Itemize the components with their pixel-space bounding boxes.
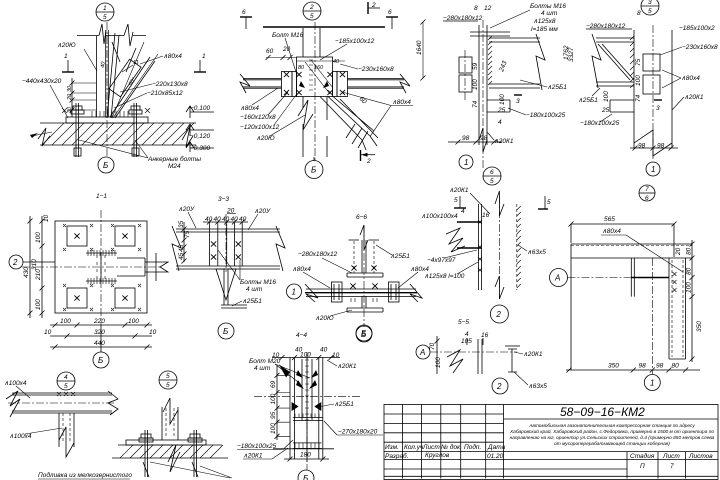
svg-text:100: 100 bbox=[270, 423, 277, 434]
svg-text:∧20У: ∧20У bbox=[178, 206, 195, 213]
svg-text:2: 2 bbox=[495, 310, 501, 319]
svg-text:74: 74 bbox=[472, 100, 479, 108]
right splice detail bbox=[568, 0, 718, 176]
svg-text:4 шт: 4 шт bbox=[254, 365, 271, 372]
inner bolt verticals bbox=[302, 359, 312, 420]
detail circle 1/5 bbox=[96, 3, 114, 21]
svg-text:∧25Б1: ∧25Б1 bbox=[334, 401, 354, 408]
svg-text:∧100х100х4: ∧100х100х4 bbox=[421, 213, 458, 220]
svg-text:−120х100х12: −120х100х12 bbox=[240, 124, 280, 131]
stitching on node plate bbox=[309, 60, 313, 90]
top plate bbox=[470, 32, 510, 36]
svg-text:59: 59 bbox=[472, 62, 479, 70]
plate bolt ticks bbox=[92, 111, 132, 117]
elevation -0,100 bbox=[186, 105, 214, 118]
svg-text:5: 5 bbox=[166, 373, 170, 380]
svg-text:∧80х4: ∧80х4 bbox=[410, 266, 429, 273]
svg-text:4: 4 bbox=[465, 331, 469, 338]
svg-text:∧20К1: ∧20К1 bbox=[243, 453, 263, 460]
gusset bolts crosses bbox=[74, 233, 127, 300]
svg-text:100: 100 bbox=[35, 299, 42, 310]
svg-text:40: 40 bbox=[222, 216, 230, 223]
svg-text:100: 100 bbox=[270, 393, 277, 404]
svg-text:∧80х4: ∧80х4 bbox=[392, 99, 411, 106]
svg-text:Болт М20: Болт М20 bbox=[249, 358, 281, 365]
dim 180 bbox=[284, 452, 329, 462]
svg-text:5: 5 bbox=[648, 8, 652, 15]
svg-text:40: 40 bbox=[205, 216, 213, 223]
svg-text:98: 98 bbox=[480, 135, 488, 142]
svg-text:∧80х4: ∧80х4 bbox=[240, 105, 259, 112]
section marker 2 top bbox=[368, 2, 380, 14]
svg-text:1: 1 bbox=[103, 5, 107, 12]
svg-text:∧25Б1: ∧25Б1 bbox=[578, 97, 598, 104]
svg-text:∧20К1: ∧20К1 bbox=[684, 94, 704, 101]
hatch marks on column left face bbox=[630, 36, 634, 88]
svg-text:75: 75 bbox=[184, 230, 191, 238]
svg-text:3327: 3327 bbox=[568, 47, 575, 62]
svg-text:100: 100 bbox=[128, 318, 139, 325]
svg-text:направлению на юг, ориентир ул: направлению на юг, ориентир ул.Сельских … bbox=[510, 434, 715, 441]
circle B bottom bbox=[93, 325, 109, 368]
outer plate square bbox=[55, 221, 147, 313]
section marker 6 right bbox=[386, 9, 398, 29]
hatch on right line bbox=[517, 206, 521, 288]
svg-text:25: 25 bbox=[601, 107, 610, 114]
svg-text:Лист: Лист bbox=[422, 444, 440, 451]
svg-text:∧20К1: ∧20К1 bbox=[494, 138, 514, 145]
svg-text:Болт М16: Болт М16 bbox=[272, 32, 304, 39]
center column solid w break bbox=[362, 240, 366, 308]
svg-text:1640: 1640 bbox=[416, 40, 423, 55]
dim 98 98 bbox=[448, 135, 502, 145]
svg-text:А: А bbox=[419, 348, 425, 357]
baseplate bbox=[66, 117, 148, 123]
column flanges above node bbox=[303, 28, 320, 57]
diagonal brace 1 near vertical bbox=[107, 33, 119, 118]
svg-text:350: 350 bbox=[696, 321, 703, 332]
left dim verticals bbox=[178, 220, 191, 263]
column bbox=[162, 407, 178, 440]
breaks bbox=[172, 226, 285, 271]
svg-text:Б: Б bbox=[311, 166, 316, 175]
svg-text:∧80х4: ∧80х4 bbox=[163, 53, 182, 60]
detail circle 4/5 bbox=[57, 372, 75, 390]
svg-text:1: 1 bbox=[650, 379, 654, 388]
svg-text:∧20Ю: ∧20Ю bbox=[57, 42, 76, 49]
svg-text:4−4: 4−4 bbox=[296, 332, 307, 339]
diagonal inside node bbox=[305, 60, 333, 94]
svg-text:2: 2 bbox=[366, 158, 371, 165]
bolts right bbox=[340, 72, 345, 77]
centerline to circle 1 bbox=[652, 258, 654, 374]
svg-text:58−09−16−КМ2: 58−09−16−КМ2 bbox=[560, 405, 645, 419]
svg-text:80: 80 bbox=[672, 363, 680, 370]
svg-text:100: 100 bbox=[686, 282, 693, 293]
svg-text:−4х97х97: −4х97х97 bbox=[427, 257, 456, 264]
svg-text:2: 2 bbox=[496, 382, 502, 391]
section marker 1 right bbox=[194, 53, 206, 72]
svg-text:∧63х5: ∧63х5 bbox=[528, 383, 547, 390]
svg-text:Дата: Дата bbox=[487, 444, 506, 451]
svg-text:−230х160х8: −230х160х8 bbox=[682, 44, 718, 51]
svg-text:100: 100 bbox=[635, 75, 642, 86]
svg-text:2: 2 bbox=[371, 2, 376, 9]
bottom dim chain bbox=[44, 318, 157, 350]
zigzag breaks bbox=[6, 391, 118, 417]
center lines bbox=[22, 266, 160, 268]
corner plan with A bbox=[550, 185, 704, 391]
column vertical lines bbox=[479, 25, 487, 145]
left edge bbox=[570, 244, 572, 370]
svg-text:∧63х5: ∧63х5 bbox=[527, 249, 546, 256]
svg-text:180: 180 bbox=[300, 452, 311, 459]
hatch marks on column face bbox=[488, 36, 492, 85]
svg-text:−160х120х8: −160х120х8 bbox=[240, 114, 276, 121]
svg-text:1−1: 1−1 bbox=[96, 193, 107, 200]
vertical bolts rows bbox=[209, 222, 242, 266]
left vertical dim 30 20 30 bbox=[67, 78, 96, 117]
circle A + line bbox=[416, 345, 517, 359]
left splice detail bbox=[443, 3, 570, 185]
svg-text:16: 16 bbox=[481, 332, 489, 339]
svg-text:100: 100 bbox=[35, 232, 42, 243]
circle 6/5 bbox=[483, 167, 501, 185]
svg-text:565: 565 bbox=[604, 216, 615, 223]
svg-text:5: 5 bbox=[547, 199, 551, 206]
circle B bbox=[218, 323, 234, 339]
top dim row bbox=[203, 208, 248, 225]
left dim chain bbox=[270, 366, 290, 440]
top chord line bbox=[263, 26, 385, 28]
bolts left bbox=[284, 72, 289, 77]
svg-text:98: 98 bbox=[657, 143, 665, 150]
svg-text:30: 30 bbox=[67, 85, 73, 92]
svg-text:5−5: 5−5 bbox=[458, 319, 469, 326]
svg-text:95: 95 bbox=[270, 411, 277, 419]
horizontal beam right bbox=[348, 79, 405, 89]
svg-text:6−6: 6−6 bbox=[356, 214, 367, 221]
svg-text:16: 16 bbox=[482, 212, 490, 219]
svg-text:01.20: 01.20 bbox=[487, 453, 504, 460]
corner gusset plates bbox=[67, 226, 87, 246]
svg-text:100: 100 bbox=[499, 94, 506, 105]
svg-text:−180х100х25: −180х100х25 bbox=[580, 120, 620, 127]
svg-text:40: 40 bbox=[320, 347, 328, 354]
svg-text:10: 10 bbox=[149, 329, 157, 336]
bolt crosses (filled arrows) bbox=[292, 370, 322, 411]
left member plates bbox=[332, 282, 343, 302]
svg-text:−185х100х12: −185х100х12 bbox=[335, 38, 375, 45]
section marker 6 left bbox=[240, 9, 252, 29]
left dim chain bbox=[23, 214, 50, 318]
x marks on column left bbox=[478, 220, 482, 272]
svg-text:∧100х4: ∧100х4 bbox=[4, 380, 27, 387]
section marker 1 left bbox=[62, 53, 74, 72]
column verticals bbox=[290, 358, 323, 460]
svg-text:−440х430х20: −440х430х20 bbox=[22, 78, 62, 85]
plate mid bbox=[293, 418, 323, 421]
svg-text:∧20К1: ∧20К1 bbox=[523, 351, 543, 358]
5-5 section detail bbox=[416, 331, 547, 394]
beam going right with arrow-break bbox=[117, 258, 145, 276]
svg-text:−0,300: −0,300 bbox=[190, 145, 210, 152]
svg-text:8: 8 bbox=[637, 10, 641, 17]
svg-text:6: 6 bbox=[490, 169, 494, 176]
svg-text:Кол.уч: Кол.уч bbox=[404, 444, 424, 451]
svg-text:∧20К1: ∧20К1 bbox=[337, 363, 357, 370]
vertical member bbox=[59, 413, 74, 447]
svg-text:1: 1 bbox=[651, 165, 655, 174]
svg-text:5: 5 bbox=[103, 14, 107, 21]
svg-text:40: 40 bbox=[333, 59, 340, 65]
svg-text:Листов: Листов bbox=[688, 453, 713, 460]
column below node w break bbox=[303, 97, 327, 158]
inner vertical stiffener bbox=[631, 258, 634, 297]
svg-text:12: 12 bbox=[484, 5, 492, 12]
svg-text:10: 10 bbox=[332, 352, 340, 359]
x marks bbox=[57, 392, 75, 396]
svg-text:∧100х4: ∧100х4 bbox=[9, 433, 32, 440]
horizontal band bbox=[12, 393, 112, 413]
top + bottom pointed breaks bbox=[495, 191, 504, 216]
svg-text:45: 45 bbox=[178, 252, 185, 260]
svg-text:4 шт: 4 шт bbox=[541, 10, 558, 17]
circle 2 left bbox=[9, 255, 55, 269]
horizontal beam left: flange lines bbox=[243, 79, 282, 89]
svg-text:11: 11 bbox=[133, 60, 139, 66]
svg-text:−230х160х8: −230х160х8 bbox=[358, 66, 394, 73]
svg-text:Анкерные болты: Анкерные болты bbox=[147, 155, 201, 163]
svg-text:Лист: Лист bbox=[662, 453, 680, 460]
svg-text:−270х180х20: −270х180х20 bbox=[338, 429, 378, 436]
svg-text:А: А bbox=[554, 274, 560, 283]
svg-text:∧80х4: ∧80х4 bbox=[681, 75, 700, 82]
column break bottom bbox=[634, 130, 672, 156]
svg-text:Подп.: Подп. bbox=[464, 443, 481, 451]
svg-text:Б: Б bbox=[103, 161, 108, 170]
beam from left with flanges bbox=[596, 38, 634, 86]
beam horizontal lines bbox=[176, 229, 280, 269]
svg-text:∧125х8 l=100: ∧125х8 l=100 bbox=[424, 273, 465, 280]
svg-text:45: 45 bbox=[178, 244, 185, 252]
beam to right with flanges bbox=[489, 38, 540, 88]
svg-text:40: 40 bbox=[214, 216, 222, 223]
circle 1 left bbox=[287, 284, 302, 299]
elevation -0,120 bbox=[186, 124, 214, 140]
circle B bbox=[305, 157, 323, 179]
svg-text:3: 3 bbox=[648, 0, 652, 6]
svg-text:20: 20 bbox=[675, 247, 682, 256]
svg-text:25: 25 bbox=[497, 107, 506, 114]
svg-text:∧25Б1: ∧25Б1 bbox=[242, 298, 262, 305]
svg-text:Круглов: Круглов bbox=[425, 452, 450, 459]
column below bbox=[224, 269, 228, 305]
anchor bolts bbox=[139, 430, 153, 477]
leader to bottom text bbox=[150, 462, 230, 478]
svg-text:160: 160 bbox=[314, 65, 324, 71]
circle 1 bbox=[459, 155, 473, 169]
svg-text:Болты М16: Болты М16 bbox=[530, 3, 566, 10]
svg-text:П: П bbox=[640, 463, 645, 470]
svg-text:1: 1 bbox=[202, 53, 206, 60]
svg-text:5: 5 bbox=[490, 178, 494, 185]
elevation -0,300 bbox=[186, 142, 214, 152]
column verticals bbox=[478, 204, 481, 290]
svg-text:98: 98 bbox=[462, 135, 470, 142]
svg-text:6: 6 bbox=[645, 195, 649, 202]
bottom bracket bbox=[487, 100, 510, 112]
svg-text:4: 4 bbox=[64, 374, 68, 381]
svg-text:∧25Б1: ∧25Б1 bbox=[390, 253, 410, 260]
column break bottom bbox=[479, 128, 487, 152]
svg-text:Б: Б bbox=[361, 329, 366, 338]
svg-text:∧80х4: ∧80х4 bbox=[292, 266, 311, 273]
svg-text:4 шт: 4 шт bbox=[246, 286, 263, 293]
column vertical lines bbox=[634, 30, 672, 148]
svg-text:−210х85х12: −210х85х12 bbox=[147, 90, 183, 97]
svg-text:5: 5 bbox=[64, 383, 68, 390]
zigzag left of column bbox=[447, 350, 463, 373]
svg-text:Б: Б bbox=[223, 327, 228, 336]
node plate rect bbox=[297, 57, 333, 97]
diagonal brace 2 with profile rect bbox=[110, 57, 155, 118]
svg-text:1: 1 bbox=[292, 288, 296, 297]
section marker 5 right bbox=[538, 196, 551, 209]
break in concrete bbox=[168, 445, 180, 472]
hatching bbox=[42, 123, 194, 145]
dim 98 98 bbox=[630, 143, 678, 151]
svg-text:440: 440 bbox=[94, 340, 105, 347]
svg-text:∧20Ю: ∧20Ю bbox=[315, 315, 334, 322]
svg-text:−220х130х8: −220х130х8 bbox=[152, 81, 188, 88]
svg-text:№ док.: № док. bbox=[441, 443, 462, 451]
svg-text:∧125х8: ∧125х8 bbox=[533, 18, 556, 25]
concrete right break bbox=[182, 126, 193, 147]
svg-text:5: 5 bbox=[166, 382, 170, 389]
concrete left break + arrow bbox=[38, 128, 50, 146]
svg-text:l=185 мм: l=185 мм bbox=[531, 26, 558, 33]
column detail between 5 markers bbox=[421, 187, 551, 326]
svg-text:Б: Б bbox=[303, 474, 308, 480]
circle 2 bbox=[490, 305, 508, 323]
svg-text:40: 40 bbox=[231, 216, 239, 223]
svg-text:7: 7 bbox=[645, 186, 649, 193]
svg-text:1: 1 bbox=[464, 158, 468, 167]
svg-text:100: 100 bbox=[60, 318, 71, 325]
svg-text:−280х180х12: −280х180х12 bbox=[298, 251, 338, 258]
svg-text:−185х100х2: −185х100х2 bbox=[679, 25, 715, 32]
svg-text:100: 100 bbox=[472, 79, 479, 90]
svg-text:100: 100 bbox=[435, 357, 442, 368]
svg-text:10: 10 bbox=[44, 329, 52, 336]
column center line bbox=[106, 22, 108, 157]
svg-text:320: 320 bbox=[94, 329, 105, 336]
stitch marks center column bbox=[305, 360, 309, 420]
detail 5/5 concrete anchor bbox=[112, 371, 232, 478]
circle 3/5 top bbox=[641, 0, 659, 15]
svg-text:6: 6 bbox=[388, 9, 392, 16]
bolts left side (two stacked rects) bbox=[459, 57, 472, 73]
svg-text:∧80х4: ∧80х4 bbox=[602, 228, 621, 235]
svg-text:Хабаровский край, Хабаровский: Хабаровский край, Хабаровский район, с.Ф… bbox=[509, 428, 714, 435]
svg-text:3−3: 3−3 bbox=[218, 196, 229, 203]
anchor bolt right bbox=[129, 103, 142, 157]
thin extra diagonals bbox=[112, 42, 158, 118]
svg-text:−180х100х25: −180х100х25 bbox=[526, 112, 566, 119]
svg-text:4: 4 bbox=[498, 119, 502, 126]
circle B top right bbox=[356, 325, 372, 341]
beam A thick flange bbox=[631, 277, 669, 279]
mid beam horizontal bbox=[306, 289, 416, 297]
svg-text:от мусороперерабатывающей стан: от мусороперерабатывающей станции коберн… bbox=[554, 440, 670, 447]
diagonal braces down-right bbox=[320, 97, 378, 141]
top dim 565 bbox=[569, 216, 677, 257]
column section verticals bbox=[478, 339, 482, 374]
concrete lines + hatch bbox=[118, 444, 222, 446]
column center vertical bbox=[314, 22, 316, 160]
two verticals dashes top bbox=[354, 241, 374, 273]
svg-text:4: 4 bbox=[461, 208, 465, 215]
svg-text:60: 60 bbox=[266, 48, 274, 55]
svg-text:75: 75 bbox=[635, 58, 642, 66]
svg-text:6: 6 bbox=[242, 9, 246, 16]
svg-text:8: 8 bbox=[474, 5, 478, 12]
circle 1 bbox=[646, 162, 660, 176]
circle B bottom (partial) bbox=[298, 470, 314, 480]
column thick line bbox=[106, 30, 109, 117]
svg-text:3: 3 bbox=[656, 105, 660, 112]
filled bolt arrows center bbox=[299, 81, 329, 88]
x marks around gussets bbox=[63, 224, 141, 311]
circle 7/6 top bbox=[639, 185, 655, 202]
svg-text:74: 74 bbox=[635, 94, 642, 102]
top dims bbox=[272, 347, 340, 361]
svg-text:98: 98 bbox=[656, 363, 664, 370]
svg-text:100: 100 bbox=[300, 352, 311, 359]
baseplate bbox=[126, 440, 206, 445]
anchor bolt left bbox=[71, 103, 84, 157]
gusset triangle bbox=[216, 269, 236, 300]
svg-text:5: 5 bbox=[454, 197, 458, 204]
svg-text:80: 80 bbox=[686, 267, 693, 275]
I-beam at right bbox=[508, 349, 517, 372]
bolts center (two stacked rects) bbox=[643, 54, 660, 71]
svg-text:−0,100: −0,100 bbox=[190, 105, 210, 112]
svg-text:М24: М24 bbox=[168, 163, 181, 170]
section marker 5 left bbox=[454, 196, 466, 208]
bottom bracket bbox=[610, 100, 634, 112]
bolt crosses bbox=[211, 241, 216, 246]
svg-text:−0,120: −0,120 bbox=[190, 133, 210, 140]
right connection plates bbox=[333, 72, 338, 97]
top plate bbox=[347, 273, 383, 277]
svg-text:100: 100 bbox=[603, 91, 610, 102]
svg-text:430: 430 bbox=[23, 267, 30, 278]
section marker 2 bottom bbox=[361, 150, 376, 165]
circle 5/5 bbox=[159, 371, 177, 389]
zigzag left bbox=[446, 228, 465, 252]
brace break marks bbox=[112, 42, 136, 72]
horizontal dash mid bbox=[254, 396, 362, 398]
left angle vertical bbox=[96, 36, 98, 117]
svg-text:Автомобильная газонаполнительн: Автомобильная газонаполнительная компрес… bbox=[528, 423, 695, 429]
detail circle 2/5 bbox=[303, 2, 321, 20]
top band: horizontal lines bbox=[571, 244, 692, 258]
right dim chain bbox=[675, 240, 703, 362]
svg-text:Разраб.: Разраб. bbox=[385, 452, 409, 460]
svg-text:2: 2 bbox=[12, 258, 18, 267]
